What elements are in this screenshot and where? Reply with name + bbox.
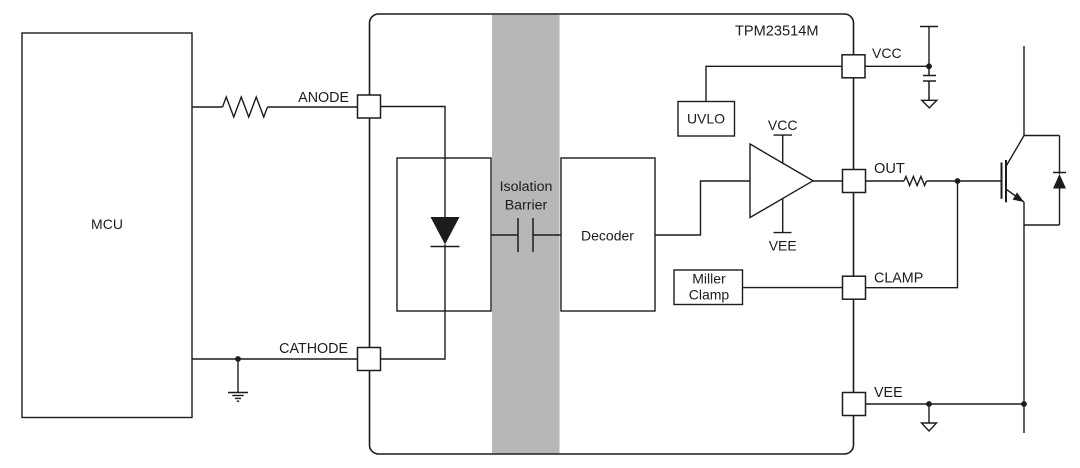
LED emitter box: [397, 158, 491, 311]
ground triangle VCC side: [922, 100, 937, 108]
wire Miller Clamp to CLAMP pin: [743, 287, 843, 289]
VCC pin: [842, 45, 902, 78]
wire collector to diode D2: [1024, 135, 1060, 137]
junction dot VCC node: [926, 63, 932, 69]
wire resistor R2 to gate node: [927, 180, 958, 182]
wire gate node to IGBT gate: [958, 180, 1001, 182]
wire UVLO to VCC pin: [706, 66, 842, 101]
VCC label on driver: [768, 117, 798, 164]
svg-text:UVLO: UVLO: [687, 110, 725, 126]
svg-text:OUT: OUT: [874, 161, 905, 177]
svg-text:Isolation: Isolation: [500, 179, 553, 195]
wire MCU to CATHODE pin: [192, 358, 358, 360]
junction dot VEE ground: [926, 401, 932, 407]
Miller Clamp block: [674, 270, 743, 305]
wire ANODE pin to diode D1: [381, 107, 446, 218]
transistor Q1 (IGBT): [1002, 136, 1025, 203]
IC body TPM23514M: [370, 14, 854, 454]
svg-text:CLAMP: CLAMP: [874, 270, 923, 286]
wire resistor R1 to ANODE pin: [268, 106, 358, 108]
diode D1 (LED): [431, 217, 460, 247]
wire MCU to resistor R1: [192, 106, 223, 108]
svg-text:VCC: VCC: [768, 117, 798, 133]
Decoder block: [561, 158, 655, 311]
wire emitter rail: [1023, 202, 1025, 433]
isolation barrier: [492, 15, 560, 454]
svg-text:TPM23514M: TPM23514M: [735, 24, 819, 40]
UVLO block: [678, 102, 735, 137]
CATHODE pin: [279, 341, 380, 371]
svg-text:VCC: VCC: [872, 45, 902, 61]
wire OUT pin to resistor R2: [866, 180, 904, 182]
svg-text:Decoder: Decoder: [581, 228, 634, 244]
junction dot cathode ground: [235, 356, 241, 362]
capacitor C1 (isolation coupling): [491, 218, 561, 252]
wire CLAMP pin to gate node: [866, 181, 958, 288]
ANODE pin: [298, 90, 380, 118]
junction dot emitter VEE: [1021, 401, 1027, 407]
VEE label on driver: [769, 199, 797, 254]
OUT pin: [843, 161, 905, 192]
svg-text:VEE: VEE: [874, 385, 903, 401]
svg-text:Barrier: Barrier: [505, 197, 548, 213]
svg-text:CATHODE: CATHODE: [279, 341, 348, 357]
wire emitter to diode bottom: [1024, 224, 1060, 226]
VEE pin: [843, 385, 903, 415]
VCC rail symbol: [920, 27, 938, 67]
driver amplifier U2: [750, 144, 813, 218]
svg-text:MCU: MCU: [91, 216, 123, 232]
svg-text:Clamp: Clamp: [689, 286, 730, 302]
wire VEE pin to emitter: [866, 403, 1024, 405]
junction dot gate node: [955, 178, 961, 184]
resistor R1: [223, 97, 268, 117]
wire VCC pin to bypass node: [865, 65, 929, 67]
capacitor C2 (VCC bypass): [923, 66, 936, 100]
svg-text:VEE: VEE: [769, 238, 797, 254]
MCU block: [22, 33, 192, 418]
wire driver U2 to OUT pin: [813, 180, 843, 182]
wire Decoder to driver U2: [655, 181, 750, 235]
diode D2 (freewheeling): [1053, 136, 1066, 226]
resistor R2 (gate): [904, 177, 927, 186]
svg-text:Miller: Miller: [692, 270, 726, 286]
wire collector rail: [1023, 46, 1025, 136]
ground (earth) at cathode: [228, 359, 248, 401]
wire diode D1 to CATHODE pin: [381, 245, 446, 360]
ground triangle VEE side: [922, 404, 937, 431]
svg-text:ANODE: ANODE: [298, 90, 349, 106]
CLAMP pin: [843, 270, 924, 299]
